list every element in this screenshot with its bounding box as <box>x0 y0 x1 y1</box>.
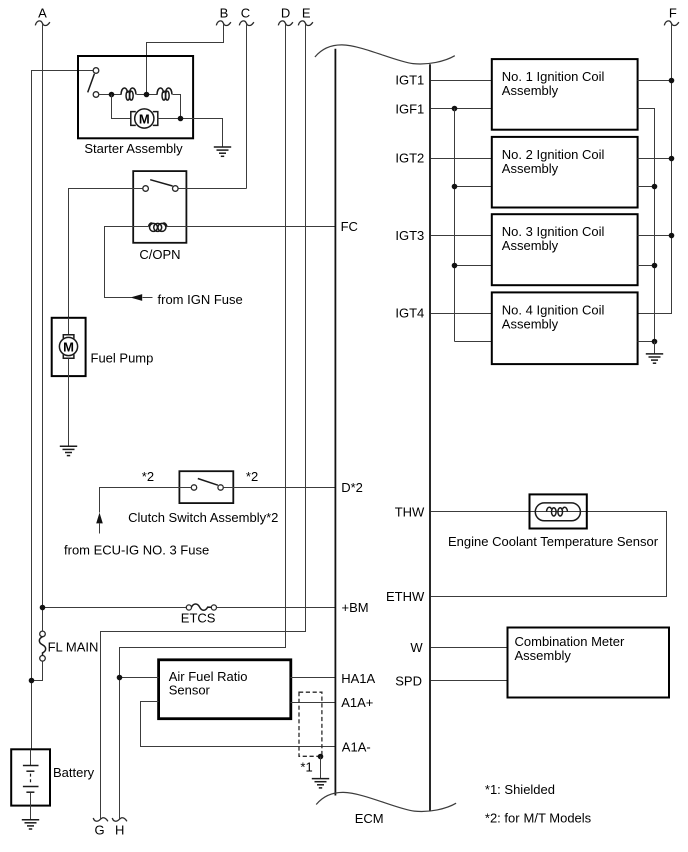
wire AFR HA1A to ECM <box>291 677 336 679</box>
wire IGT3 <box>431 235 492 237</box>
junction IGF2 <box>452 184 458 190</box>
junction H rail AFR <box>117 675 123 681</box>
ECM torn bottom edge <box>316 792 456 811</box>
air fuel ratio sensor box <box>159 660 291 719</box>
node A terminal <box>35 5 50 25</box>
junction IGF3 <box>452 263 458 269</box>
wire E rail to G <box>101 24 306 818</box>
wire battery to ground <box>30 793 32 820</box>
starter motor M <box>131 109 158 128</box>
svg-text:G: G <box>94 823 104 838</box>
ECM right edge <box>429 64 431 811</box>
ground starter <box>214 147 231 156</box>
svg-text:Assembly: Assembly <box>502 83 559 98</box>
combination meter box <box>508 628 670 698</box>
wire C/OPN switch to fuel pump <box>69 189 143 318</box>
wire no.3 ground pin <box>638 265 655 267</box>
junction ground rail no.3 <box>652 263 658 269</box>
svg-text:A1A-: A1A- <box>342 740 371 755</box>
wire IGF2 <box>455 186 492 188</box>
wire C rail vertical <box>246 24 248 188</box>
svg-text:*2: *2 <box>246 469 258 484</box>
ignition coil no.2 box <box>492 137 638 208</box>
svg-text:A1A+: A1A+ <box>341 695 373 710</box>
node G terminal <box>93 818 108 838</box>
clutch switch contact left <box>191 485 196 490</box>
wire C/OPN switch to C <box>179 188 247 190</box>
wire IGF3 <box>455 265 492 267</box>
svg-text:W: W <box>410 640 423 655</box>
svg-text:Air Fuel Ratio: Air Fuel Ratio <box>169 669 248 684</box>
wire no.2 +B to F rail <box>638 158 672 160</box>
starter switch contact top <box>93 68 99 74</box>
junction ground rail no.2 <box>652 184 658 190</box>
wire AFR sensor left pin to H rail <box>120 677 159 679</box>
wire clutch switch to ECM D*2 <box>224 487 336 489</box>
svg-text:B: B <box>220 5 229 20</box>
svg-text:*2: *2 <box>142 469 154 484</box>
wire no.1 ground pin to rail <box>638 109 655 342</box>
starter hold-in coil <box>121 88 136 100</box>
svg-text:Assembly: Assembly <box>502 161 559 176</box>
svg-text:Sensor: Sensor <box>169 683 211 698</box>
arrow from ECU-IG fuse <box>96 513 103 524</box>
node E terminal <box>298 5 313 25</box>
wire coil rail to ground <box>654 342 656 354</box>
svg-text:M: M <box>63 340 74 355</box>
C/OPN relay box <box>133 171 186 243</box>
svg-text:No. 4 Ignition Coil: No. 4 Ignition Coil <box>502 302 605 317</box>
ignition coil no.1 box <box>492 59 638 130</box>
svg-text:F: F <box>669 5 677 20</box>
wire W to combination meter <box>431 647 508 649</box>
svg-text:A: A <box>38 5 47 20</box>
svg-text:Assembly: Assembly <box>502 238 559 253</box>
C/OPN switch contact right <box>173 186 179 192</box>
wire IGT1 <box>431 80 492 82</box>
junction ground rail no.4 <box>652 339 658 345</box>
wire A rail vertical <box>42 24 44 631</box>
fusible link FL MAIN <box>39 631 45 661</box>
fuel pump box <box>52 318 86 376</box>
svg-text:Combination Meter: Combination Meter <box>515 634 625 649</box>
wire +BM left segment <box>43 607 187 609</box>
svg-text:*1: *1 <box>300 759 312 774</box>
junction motor-coil right <box>178 116 184 122</box>
wire starter switch to coils <box>99 94 122 96</box>
wire motor to ground <box>158 119 223 147</box>
junction +BM on A rail <box>40 605 46 611</box>
ECM left edge <box>334 49 336 796</box>
svg-text:Starter Assembly: Starter Assembly <box>84 141 183 156</box>
wire F rail vertical <box>638 24 672 313</box>
clutch switch blade <box>198 479 218 486</box>
wire switch to motor left <box>112 95 131 119</box>
svg-text:Engine Coolant Temperature Sen: Engine Coolant Temperature Sensor <box>448 534 659 549</box>
starter assembly box <box>78 56 193 138</box>
ground fuel pump <box>60 446 77 455</box>
fuel pump motor <box>59 318 77 359</box>
svg-text:THW: THW <box>395 505 425 520</box>
arrow from IGN fuse <box>130 294 142 301</box>
fuse ETCS <box>186 604 216 610</box>
wire fuel pump to ground <box>68 359 70 447</box>
svg-text:No. 1 Ignition Coil: No. 1 Ignition Coil <box>502 69 605 84</box>
svg-text:No. 2 Ignition Coil: No. 2 Ignition Coil <box>502 147 605 162</box>
svg-text:No. 3 Ignition Coil: No. 3 Ignition Coil <box>502 224 605 239</box>
wire IGF distribution rail <box>454 109 456 342</box>
junction F no.2 <box>669 156 675 162</box>
svg-text:SPD: SPD <box>395 673 422 688</box>
svg-text:HA1A: HA1A <box>341 671 375 686</box>
starter pull-in coil <box>157 88 172 100</box>
junction IGF1 <box>452 106 458 112</box>
node C terminal <box>239 5 254 25</box>
svg-text:Fuel Pump: Fuel Pump <box>91 351 154 366</box>
svg-text:Clutch Switch Assembly*2: Clutch Switch Assembly*2 <box>128 510 278 525</box>
wire AFR to ECM A1A- <box>141 702 336 747</box>
ECM torn top edge <box>315 45 455 64</box>
svg-text:IGT2: IGT2 <box>395 151 424 166</box>
wire no.2 ground pin <box>638 186 655 188</box>
node F terminal <box>664 5 679 25</box>
junction F no.1 <box>669 78 675 84</box>
ground shield <box>312 779 329 788</box>
svg-text:*2: for: *2: for <box>485 811 520 826</box>
svg-text:IGT4: IGT4 <box>395 306 424 321</box>
svg-text:D*2: D*2 <box>341 480 363 495</box>
svg-text:FL MAIN: FL MAIN <box>48 640 99 655</box>
wire shield to ground <box>320 757 322 779</box>
wire IGF4 <box>455 341 492 343</box>
starter switch contact bottom <box>93 92 99 98</box>
ignition coil no.4 box <box>492 292 638 364</box>
wire FL MAIN to battery rail <box>32 662 43 681</box>
wire B to starter solenoid <box>147 24 224 94</box>
junction battery rail <box>29 678 35 684</box>
junction F no.3 <box>669 233 675 239</box>
svg-text:M: M <box>139 112 150 127</box>
svg-text:ECM: ECM <box>355 811 384 826</box>
C/OPN relay coil <box>149 223 167 231</box>
battery cell symbol <box>23 750 39 793</box>
wire clutch switch to ECU-IG fuse arrow <box>100 488 192 513</box>
junction starter switch-motor <box>109 92 115 98</box>
svg-text:ETCS: ETCS <box>181 611 216 626</box>
wire AFR A1A+ to ECM <box>291 702 336 704</box>
node B terminal <box>216 5 231 25</box>
ignition coil no.3 box <box>492 214 638 285</box>
ground ignition coils <box>646 354 663 363</box>
wire THW to sensor and return <box>431 512 667 597</box>
svg-text:from IGN Fuse: from IGN Fuse <box>158 292 243 307</box>
C/OPN switch contact left <box>143 186 149 192</box>
starter switch blade <box>88 74 95 93</box>
svg-text:D: D <box>281 5 290 20</box>
C/OPN switch blade <box>150 180 172 186</box>
ground battery <box>22 820 39 829</box>
wire arrow tail down <box>99 523 101 533</box>
svg-text:E: E <box>302 5 311 20</box>
svg-text:IGT3: IGT3 <box>395 228 424 243</box>
junction starter coil node B <box>144 92 150 98</box>
wire no.3 +B to F rail <box>638 235 672 237</box>
wire coil right FC to ECM <box>167 226 336 228</box>
wire arrow tail <box>143 297 153 299</box>
node H terminal <box>112 818 127 838</box>
wire between starter coils <box>137 94 158 96</box>
battery box <box>11 749 50 805</box>
wire +BM right segment to ECM <box>217 607 336 609</box>
wire battery to starter switch rail <box>32 71 94 750</box>
svg-text:IGF1: IGF1 <box>395 101 424 116</box>
wire no.1 +B to F rail <box>638 80 672 82</box>
clutch switch box <box>179 471 233 503</box>
wire IGT4 <box>431 313 492 315</box>
svg-text:IGT1: IGT1 <box>395 72 424 87</box>
svg-text:H: H <box>115 823 124 838</box>
svg-text:C/OPN: C/OPN <box>139 247 180 262</box>
wire SPD to combination meter <box>431 680 508 682</box>
node D terminal <box>278 5 293 25</box>
svg-text:Battery: Battery <box>53 765 95 780</box>
junction shield ground <box>318 754 324 760</box>
engine coolant temperature sensor <box>530 494 587 528</box>
clutch switch contact right <box>218 485 223 490</box>
svg-text:Assembly: Assembly <box>502 316 559 331</box>
svg-text:M/T Models: M/T Models <box>524 811 592 826</box>
wire IGT2 <box>431 158 492 160</box>
svg-text:FC: FC <box>341 219 358 234</box>
svg-text:C: C <box>241 5 250 20</box>
svg-text:ETHW: ETHW <box>386 589 425 604</box>
wire coil to motor right <box>173 95 181 119</box>
shield dashed box <box>299 692 322 756</box>
wire IGF1 <box>431 108 492 110</box>
svg-text:Assembly: Assembly <box>515 648 572 663</box>
svg-text:*1: Shielded: *1: Shielded <box>485 782 555 797</box>
wire no.4 ground pin <box>638 341 655 343</box>
svg-text:from ECU-IG NO. 3 Fuse: from ECU-IG NO. 3 Fuse <box>64 543 209 558</box>
wire coil left to IGN fuse arrow <box>105 227 149 298</box>
wire D rail to H junction <box>120 24 286 818</box>
svg-text:+BM: +BM <box>342 600 369 615</box>
